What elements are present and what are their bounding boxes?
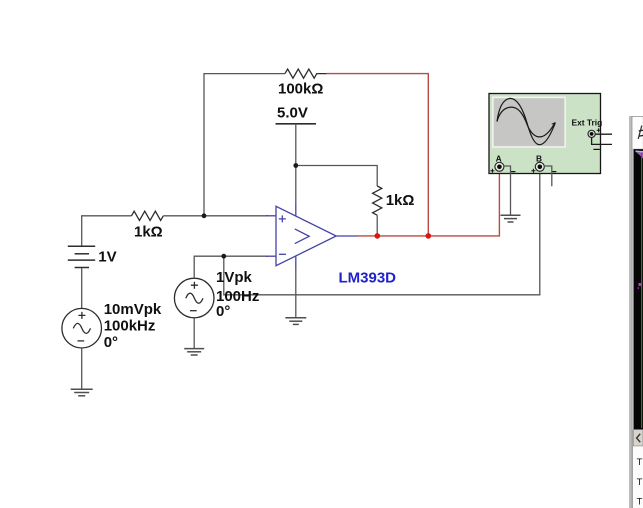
- wire ext trig stubs: [592, 134, 612, 144]
- wire V2 bottom to ground: [81, 348, 83, 389]
- terminal B: [531, 162, 556, 173]
- ground under V2: [71, 389, 93, 396]
- svg-text:5.0V: 5.0V: [277, 104, 308, 121]
- resistor R1 1kΩ horizontal: [132, 211, 164, 220]
- wire scope B tap down and across: [224, 171, 540, 294]
- resistor R3 1kΩ vertical: [373, 186, 382, 215]
- svg-text:1Vpk: 1Vpk: [216, 269, 253, 286]
- svg-text:0°: 0°: [216, 303, 230, 320]
- side window title box: [632, 117, 643, 150]
- oscilloscope XSC1 body: [489, 94, 601, 174]
- wire battery top to input node: [82, 216, 132, 246]
- side window green trace line: [641, 153, 643, 428]
- svg-text:T: T: [637, 497, 643, 508]
- side window border: [629, 116, 633, 508]
- oscilloscope trace A: [497, 98, 555, 144]
- op-amp U1 triangle: [266, 205, 357, 269]
- terminal A: [490, 162, 515, 173]
- wire V3 bottom to ground: [193, 318, 195, 349]
- oscilloscope screen: [492, 97, 566, 148]
- wire battery bottom to source V2: [81, 268, 83, 309]
- svg-text:T: T: [637, 457, 643, 468]
- ground under V3: [184, 349, 204, 355]
- wire V3 top to op-amp minus input: [194, 256, 268, 278]
- wire R3 bottom lead: [376, 215, 378, 234]
- node red junction dot feedback output: [426, 233, 432, 239]
- side window text area: [634, 446, 643, 508]
- svg-text:1kΩ: 1kΩ: [386, 192, 415, 209]
- node junction dot VCC: [293, 163, 298, 168]
- source V2 10mVpk circle: [62, 308, 102, 348]
- side window title glyph: [638, 126, 643, 140]
- node junction dot input: [202, 213, 207, 218]
- wire scope A minus to ground: [503, 166, 510, 215]
- svg-text:Ext Trig: Ext Trig: [572, 117, 603, 127]
- svg-text:LM393D: LM393D: [339, 269, 397, 286]
- oscilloscope trace B: [497, 107, 555, 137]
- wire op-amp ground pin down: [295, 268, 297, 318]
- ground under op-amp: [285, 318, 306, 325]
- wire scope B minus stub: [544, 166, 552, 186]
- svg-text:T: T: [637, 477, 643, 488]
- wire R1 to op-amp plus input: [163, 215, 268, 217]
- wire red R2 to corner and down to output: [327, 74, 429, 236]
- side window cyan trace sliver: [636, 150, 643, 153]
- svg-text:0°: 0°: [104, 334, 118, 351]
- wire VCC node to R3 top: [296, 166, 377, 187]
- side window scrollbar button: [634, 430, 643, 446]
- battery V1: [68, 246, 95, 267]
- side window black plot area: [633, 149, 643, 429]
- svg-text:1V: 1V: [98, 248, 116, 265]
- oscilloscope trace A arrowhead: [552, 123, 556, 127]
- wire VCC node down to op-amp power pin: [295, 166, 297, 206]
- svg-text:1kΩ: 1kΩ: [134, 223, 163, 240]
- wire red output run: [357, 171, 499, 236]
- node red junction dot R3 output: [375, 233, 381, 239]
- svg-text:100kΩ: 100kΩ: [278, 80, 323, 97]
- ground under scope: [501, 215, 521, 222]
- source V3 1Vpk circle: [174, 278, 214, 318]
- svg-text:10mVpk: 10mVpk: [104, 301, 162, 318]
- wire feedback node up and to R2: [204, 74, 285, 216]
- svg-text:100kHz: 100kHz: [104, 318, 156, 335]
- terminal Ext Trig: [588, 128, 601, 149]
- side window magenta trace blob: [637, 152, 643, 158]
- side window magenta marker: [637, 283, 641, 289]
- resistor R2 100kΩ horizontal: [285, 69, 326, 78]
- node junction dot minus input: [221, 254, 226, 259]
- VCC 5.0V supply bar: [276, 124, 317, 166]
